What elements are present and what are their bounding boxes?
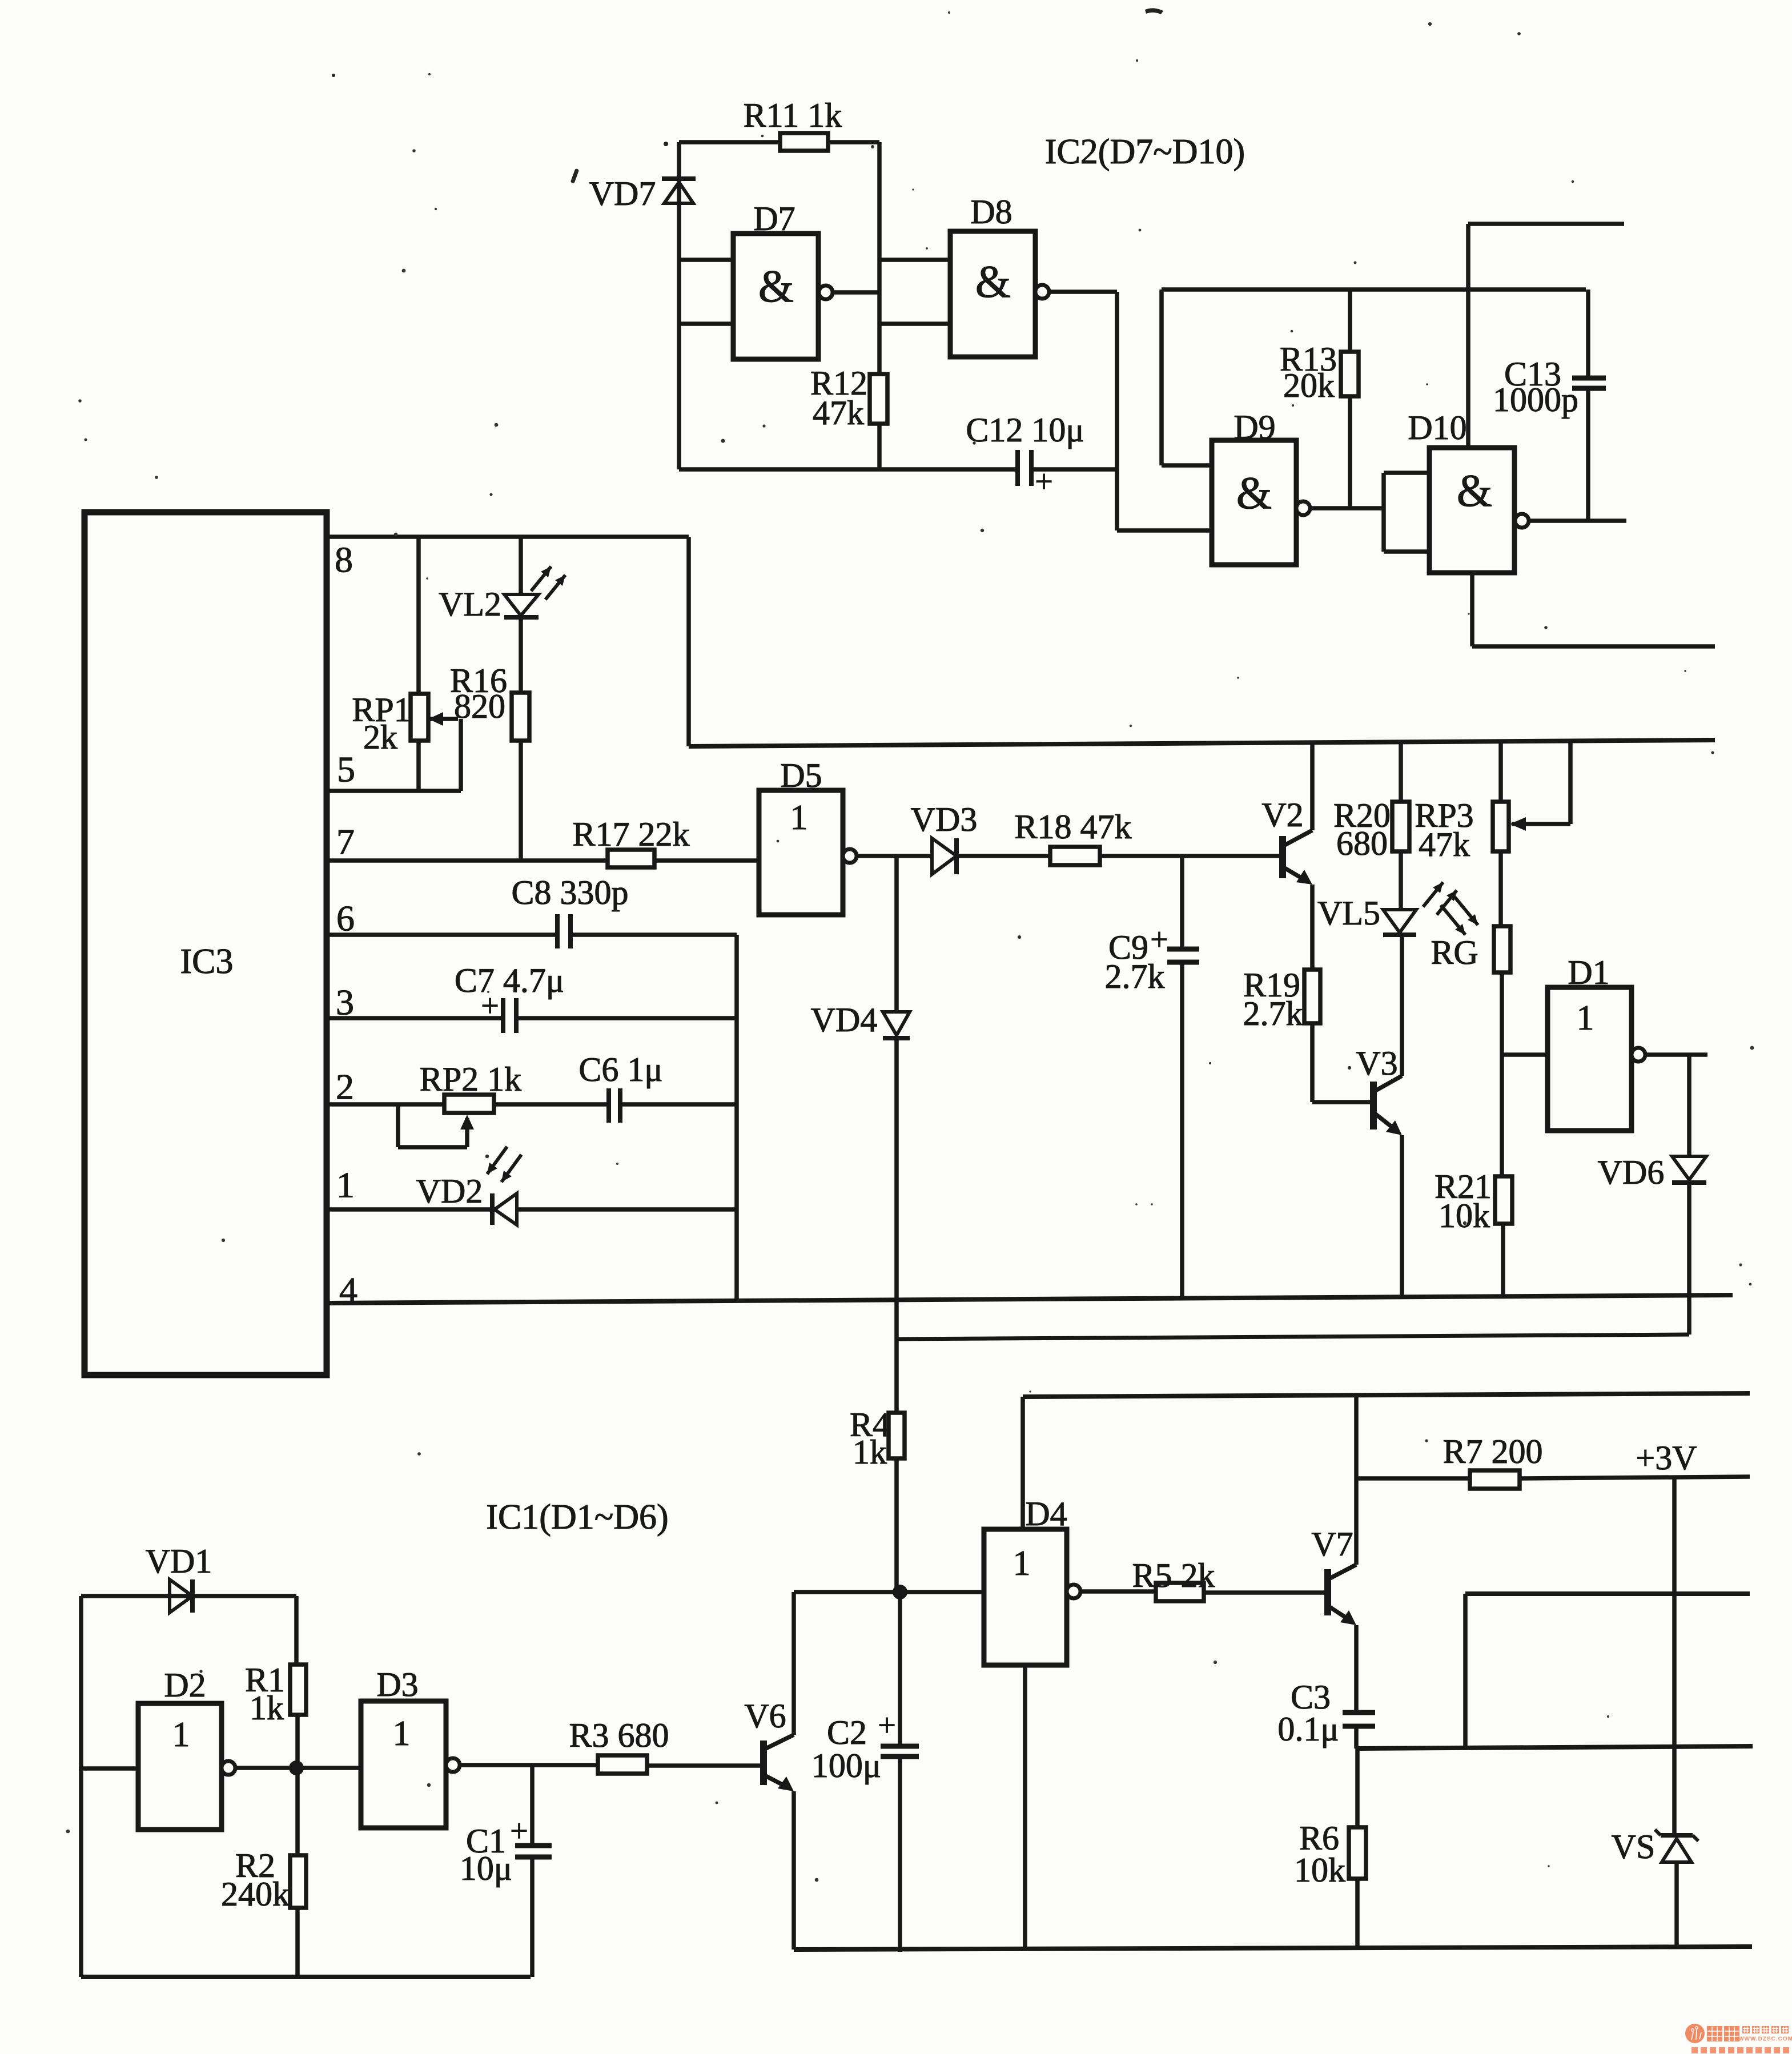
svg-text:2.7k: 2.7k <box>1105 958 1165 995</box>
svg-text:C8 330p: C8 330p <box>511 874 628 911</box>
svg-text:4: 4 <box>339 1270 357 1311</box>
svg-text:1k: 1k <box>250 1689 284 1727</box>
svg-text:10μ: 10μ <box>460 1850 512 1887</box>
svg-text:+: + <box>510 1814 528 1849</box>
svg-text:100μ: 100μ <box>811 1747 881 1784</box>
svg-text:D5: D5 <box>780 757 822 794</box>
svg-text:V3: V3 <box>1356 1044 1397 1082</box>
svg-text:1: 1 <box>393 1714 411 1753</box>
svg-text:VD1: VD1 <box>146 1542 212 1580</box>
svg-text:+3V: +3V <box>1636 1439 1697 1477</box>
svg-text:&: & <box>758 262 794 312</box>
svg-text:6: 6 <box>336 898 355 939</box>
svg-text:D7: D7 <box>753 200 795 238</box>
svg-text:RG: RG <box>1431 934 1478 971</box>
svg-text:C2: C2 <box>827 1714 867 1751</box>
svg-text:VS: VS <box>1612 1828 1656 1866</box>
svg-text:C7 4.7μ: C7 4.7μ <box>455 962 564 999</box>
svg-text:R3 680: R3 680 <box>569 1717 669 1754</box>
svg-text:&: & <box>1457 466 1492 516</box>
svg-text:8: 8 <box>335 540 353 580</box>
svg-text:RP2 1k: RP2 1k <box>420 1060 521 1098</box>
svg-text:VL5: VL5 <box>1317 894 1380 932</box>
svg-text:1000p: 1000p <box>1493 381 1578 419</box>
svg-text:+: + <box>481 988 499 1024</box>
svg-text:VD6: VD6 <box>1598 1153 1665 1191</box>
svg-text:7: 7 <box>336 822 355 862</box>
svg-text:20k: 20k <box>1283 367 1335 404</box>
svg-text:V2: V2 <box>1261 796 1303 834</box>
svg-text:1: 1 <box>1577 999 1594 1038</box>
svg-text:1: 1 <box>1013 1544 1031 1583</box>
svg-text:0.1μ: 0.1μ <box>1277 1710 1339 1748</box>
svg-text:WWW.DZSC.COM: WWW.DZSC.COM <box>1738 2036 1792 2043</box>
svg-text:2k: 2k <box>363 718 397 756</box>
svg-text:+: + <box>1150 922 1168 958</box>
svg-text:D3: D3 <box>376 1666 418 1703</box>
svg-text:VL2: VL2 <box>439 585 501 623</box>
svg-text:820: 820 <box>454 688 505 725</box>
svg-text:&: & <box>975 257 1011 307</box>
svg-text:240k: 240k <box>221 1875 290 1913</box>
svg-text:IC1(D1~D6): IC1(D1~D6) <box>486 1498 668 1537</box>
svg-text:47k: 47k <box>813 394 864 432</box>
svg-text:IC3: IC3 <box>180 942 234 981</box>
svg-text:D9: D9 <box>1233 408 1275 446</box>
svg-text:1: 1 <box>172 1715 190 1754</box>
svg-text:R18 47k: R18 47k <box>1014 808 1131 846</box>
svg-text:V7: V7 <box>1311 1525 1353 1563</box>
svg-text:C12 10μ: C12 10μ <box>966 411 1084 449</box>
svg-text:R7 200: R7 200 <box>1443 1433 1542 1470</box>
svg-text:10k: 10k <box>1294 1851 1345 1889</box>
svg-text:VD2: VD2 <box>416 1172 483 1210</box>
svg-text:2.7k: 2.7k <box>1243 995 1303 1032</box>
svg-text:47k: 47k <box>1419 826 1470 863</box>
svg-text:&: & <box>1236 468 1272 518</box>
svg-text:5: 5 <box>337 749 355 790</box>
svg-text:1: 1 <box>790 798 808 837</box>
svg-text:VD3: VD3 <box>911 801 978 838</box>
svg-text:D8: D8 <box>970 193 1012 231</box>
svg-text:1k: 1k <box>853 1433 887 1471</box>
svg-text:D1: D1 <box>1568 954 1609 991</box>
svg-text:C6 1μ: C6 1μ <box>578 1051 662 1088</box>
svg-text:IC2(D7~D10): IC2(D7~D10) <box>1045 132 1245 171</box>
svg-text:+: + <box>878 1708 896 1743</box>
svg-text:VD4: VD4 <box>811 1001 878 1039</box>
svg-text:2: 2 <box>336 1067 354 1107</box>
svg-text:680: 680 <box>1336 825 1388 862</box>
svg-text:D4: D4 <box>1025 1495 1067 1533</box>
svg-text:10k: 10k <box>1439 1197 1490 1235</box>
svg-text:3: 3 <box>336 982 354 1023</box>
svg-text:D10: D10 <box>1408 409 1466 447</box>
svg-text:R11 1k: R11 1k <box>744 97 842 134</box>
svg-text:VD7: VD7 <box>589 175 656 212</box>
svg-text:V6: V6 <box>744 1697 786 1735</box>
svg-text:R5 2k: R5 2k <box>1132 1557 1215 1594</box>
svg-text:1: 1 <box>336 1165 355 1205</box>
svg-text:R17 22k: R17 22k <box>572 815 689 853</box>
svg-text:+: + <box>1035 464 1053 500</box>
